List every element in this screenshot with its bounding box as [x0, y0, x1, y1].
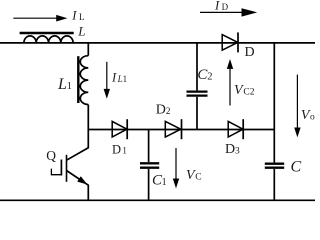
label D2	[156, 103, 171, 118]
label C2	[197, 67, 212, 83]
svg-text:C2: C2	[243, 87, 254, 97]
svg-text:C: C	[291, 159, 302, 176]
svg-text:D: D	[245, 45, 255, 60]
inductor L	[24, 36, 73, 43]
svg-text:D: D	[112, 143, 121, 157]
inductor L core bar	[20, 32, 74, 34]
label Q	[46, 148, 56, 163]
svg-text:I: I	[214, 0, 220, 13]
svg-text:I: I	[71, 9, 77, 23]
label D3	[225, 142, 240, 157]
diode D2	[165, 119, 181, 139]
wire C2 branch top	[196, 43, 198, 91]
svg-text:L: L	[79, 12, 85, 22]
diode D	[222, 32, 238, 52]
svg-text:D: D	[156, 103, 166, 118]
label ID	[214, 0, 229, 13]
wire C1 branch top	[148, 130, 150, 163]
wire right rail bottom	[273, 169, 275, 200]
arrow VC2	[227, 59, 233, 106]
inductor L1 core bar	[77, 56, 79, 103]
svg-text:Q: Q	[46, 148, 56, 163]
label Vo	[301, 108, 315, 123]
capacitor C1	[140, 163, 159, 167]
transistor Q gate lead	[51, 169, 61, 175]
svg-text:2: 2	[166, 107, 171, 117]
wire C1 branch bottom	[148, 169, 150, 200]
label D	[245, 45, 255, 60]
label D1	[112, 143, 127, 157]
transistor Q gate bar	[60, 160, 62, 176]
transistor Q body bar	[66, 155, 68, 182]
label IL	[71, 9, 84, 23]
wire L1 to middle rail	[87, 105, 89, 130]
arrow VC	[173, 148, 179, 188]
svg-text:D: D	[225, 142, 235, 157]
arrow ID	[200, 8, 257, 16]
inductor L1	[80, 56, 88, 105]
label C1	[152, 172, 167, 188]
svg-text:L: L	[57, 76, 67, 93]
label IL1	[111, 70, 127, 84]
svg-text:D: D	[222, 2, 229, 12]
wire bottom rail	[0, 199, 315, 201]
transistor Q emitter	[67, 171, 89, 201]
svg-text:1: 1	[162, 177, 167, 188]
svg-text:o: o	[310, 112, 315, 122]
wire C2 branch bottom	[196, 97, 198, 130]
wire L1 branch top	[87, 42, 89, 56]
wire middle rail	[88, 129, 274, 131]
label L	[77, 24, 85, 39]
capacitor C	[265, 164, 284, 168]
label VC2	[234, 83, 255, 98]
svg-text:1: 1	[67, 81, 72, 92]
wire top rail	[0, 42, 315, 44]
label L1	[57, 76, 72, 93]
arrow Vo	[294, 75, 300, 138]
arrow IL1	[104, 62, 110, 99]
svg-text:3: 3	[235, 147, 240, 157]
transistor Q collector	[67, 130, 89, 161]
svg-text:1: 1	[122, 146, 127, 156]
svg-text:2: 2	[207, 72, 212, 83]
label VC	[186, 168, 202, 183]
arrow IL	[13, 15, 67, 22]
svg-text:I: I	[111, 70, 117, 84]
diode D1	[112, 119, 127, 139]
svg-text:L: L	[77, 24, 85, 39]
svg-text:C: C	[195, 172, 201, 182]
capacitor C2	[187, 92, 208, 96]
wire right rail top	[273, 43, 275, 162]
label C	[291, 159, 302, 176]
svg-text:1: 1	[123, 74, 128, 84]
diode D3	[228, 119, 243, 139]
